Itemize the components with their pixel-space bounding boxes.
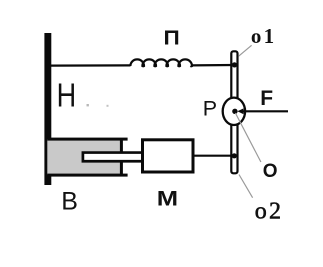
pointer line to o1 <box>239 45 252 56</box>
force F arrowhead <box>237 108 243 114</box>
svg-text:F: F <box>260 87 273 110</box>
pointer line to O <box>235 113 261 162</box>
pointer line to o2 <box>239 175 253 198</box>
damper B cylinder (gray body) <box>47 139 120 174</box>
label B <box>61 188 78 216</box>
label Н <box>57 78 77 114</box>
label П <box>164 27 180 49</box>
mass M block <box>143 140 194 172</box>
label F <box>260 87 273 110</box>
damper B cylinder top wall <box>47 138 127 141</box>
spring П <box>130 59 192 66</box>
svg-text:Н: Н <box>57 78 77 114</box>
force F line <box>243 110 289 112</box>
node spring-lever junction <box>232 62 237 67</box>
lever rod o1-o2 <box>231 51 237 173</box>
svg-text:B: B <box>61 188 78 216</box>
damper B cylinder bottom wall <box>47 174 127 177</box>
svg-text:P: P <box>203 96 217 120</box>
label o2 <box>255 199 283 225</box>
svg-text:o2: o2 <box>255 199 283 225</box>
label P <box>203 96 217 120</box>
label O <box>263 161 278 182</box>
node O pivot center <box>232 109 237 114</box>
svg-text:П: П <box>164 27 180 49</box>
node mass-lever junction <box>232 153 237 158</box>
pivot circle P <box>223 98 245 125</box>
wire spring-line left <box>50 64 131 66</box>
wire mass-to-lever <box>195 155 235 157</box>
damper B piston rod <box>83 153 144 162</box>
wire spring-line right <box>191 64 234 67</box>
label M <box>157 187 178 210</box>
damper B piston plate <box>120 140 123 175</box>
svg-text:M: M <box>157 187 178 210</box>
label o1 <box>251 24 276 48</box>
svg-text:O: O <box>263 161 278 182</box>
wall <box>44 33 51 185</box>
svg-text:o1: o1 <box>251 24 276 48</box>
